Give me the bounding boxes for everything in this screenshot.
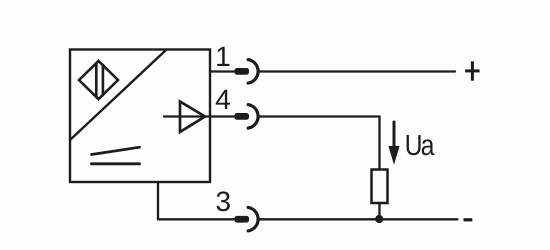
amplifier triangle U1	[180, 102, 205, 133]
analog output symbol slanted line	[92, 147, 140, 154]
inductive sensor diamond	[79, 61, 118, 99]
wire from box bottom down	[157, 182, 159, 219]
analog output symbol base line	[92, 162, 140, 165]
pin 4 connector pin bar	[235, 113, 250, 120]
pin 1 wire from box to connector	[210, 70, 236, 72]
diamond inner line right	[102, 65, 105, 95]
wire resistor to minus rail	[378, 203, 380, 219]
pin 4 connector socket arc	[248, 105, 258, 129]
Ua arrow	[393, 122, 396, 148]
sensor box	[70, 50, 210, 183]
pin 3 connector pin bar	[235, 216, 250, 223]
Ua label letter U	[407, 135, 421, 155]
pin 3 label	[217, 191, 230, 211]
wire down to resistor	[378, 117, 380, 170]
wire pin 1 to plus terminal	[259, 70, 455, 72]
diagonal divider	[70, 50, 167, 141]
plus terminal	[465, 61, 479, 80]
pin 3 connector socket arc	[248, 207, 258, 231]
pin 1 connector socket arc	[248, 60, 258, 84]
wire pin 3 to minus terminal	[259, 218, 458, 220]
pin 1 connector pin bar	[235, 68, 250, 75]
wire pin 4 to load corner	[259, 115, 380, 117]
Ua label letter a	[422, 139, 435, 155]
load resistor	[372, 170, 388, 204]
minus terminal	[464, 218, 473, 221]
pin 4 wire through amplifier	[164, 115, 236, 117]
junction dot	[375, 215, 383, 223]
wire to pin 3 connector	[158, 218, 236, 220]
pin 4 label	[216, 90, 230, 109]
diamond inner line left	[95, 63, 98, 97]
pin 1 label	[217, 47, 229, 66]
